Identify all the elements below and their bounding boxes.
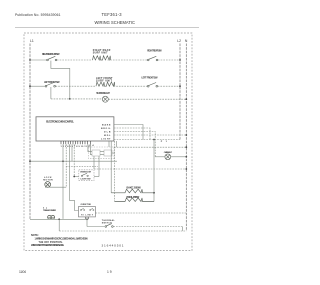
wire door circuit to N: [94, 168, 186, 170]
svg-text:SURF IND LIGHT: SURF IND LIGHT: [96, 92, 110, 95]
connector block P2: [92, 150, 100, 156]
wire rung2 right mid: [114, 85, 148, 87]
wire comb pin to connector P2 upper: [88, 144, 92, 151]
wire rung2 to L2: [158, 85, 180, 87]
svg-text:TEF361-3: TEF361-3: [102, 12, 123, 17]
wire rung1 to L2: [158, 59, 180, 61]
svg-text:LIGHT: LIGHT: [101, 139, 111, 141]
wire motor to harness: [45, 186, 66, 188]
wire main horizontal L1 feed: [30, 160, 117, 162]
connector housing dashed box: [89, 147, 115, 159]
junction rung1 at L1: [29, 59, 31, 61]
connector block P3: [104, 150, 112, 156]
schematic border frame: [24, 33, 192, 251]
wire connector to N: [114, 146, 186, 148]
switch right rear surface switch L2 side: [147, 56, 158, 61]
wire rung1 left: [30, 59, 47, 61]
wire TOD output to N: [95, 212, 186, 214]
svg-text:BAKE: BAKE: [102, 124, 111, 127]
wire thermal rung right: [113, 226, 182, 228]
switch TOD contact 1: [80, 208, 84, 210]
junction L1 feed crossing: [62, 160, 64, 162]
wire harness vertical 2: [65, 144, 67, 187]
junction TOD stub at transformer wire: [86, 219, 88, 221]
wire rung2 left: [30, 85, 45, 87]
wire L2 bus: [179, 44, 181, 140]
heating element bake: [111, 189, 154, 193]
junction pilot node: [69, 98, 71, 100]
wire EOC pin stub b: [116, 141, 118, 147]
junction door switch feed: [73, 176, 75, 178]
junction lamp wire at N: [185, 98, 187, 100]
wire connector P2 to P3: [100, 152, 104, 155]
svg-text:2. DISCONNECT POWER BEFORE SE: 2. DISCONNECT POWER BEFORE SERVICING.: [31, 245, 64, 247]
electronic oven control box U1: [36, 117, 114, 141]
wire pilot drop from rung1 switch: [51, 61, 70, 99]
wire rung1 right mid: [108, 59, 148, 61]
svg-text:Publication No. 5995439061: Publication No. 5995439061: [15, 13, 61, 17]
wire harness vertical 1: [62, 144, 64, 219]
svg-text:19: 19: [107, 270, 112, 274]
lamp oven light: [165, 154, 171, 160]
switch left rear surface switch: [147, 83, 157, 88]
wire connector P3 stub: [112, 152, 115, 154]
wire indicator lamp to N: [108, 98, 186, 100]
switch left front surface switch L1 side: [47, 56, 57, 61]
wire oven light left: [155, 156, 165, 158]
svg-text:BROIL: BROIL: [101, 128, 111, 130]
heating element right rear surface unit: [93, 56, 111, 60]
junction oven light at N: [185, 156, 187, 158]
wire comb pin to connector P2 lower: [90, 144, 92, 154]
switch door light switch: [81, 173, 88, 176]
svg-text:SURF UNIT: SURF UNIT: [93, 51, 108, 54]
svg-text:WIRING SCHEMATIC: WIRING SCHEMATIC: [95, 20, 136, 25]
wire EOC pin stub a: [108, 141, 110, 147]
svg-text:TRANSFORMER: TRANSFORMER: [43, 209, 56, 212]
wire EOC bake output: [114, 125, 143, 140]
wire harness vertical 4: [71, 144, 73, 161]
wire EOC broil output: [114, 128, 150, 140]
wire bottom return to N: [59, 230, 186, 232]
wire rung2 mid: [56, 85, 97, 87]
junction door switch wire at N: [185, 168, 187, 170]
wire L1 to transformer: [30, 218, 87, 220]
wire pilot drop from rung2 switch: [50, 87, 52, 99]
heating element left front surface unit: [96, 82, 115, 86]
lamp surface indicator light: [102, 96, 108, 102]
wire loop left drop: [58, 219, 60, 231]
wire L2 rail to elements: [153, 140, 155, 202]
junction rung2 at L1: [29, 85, 31, 87]
svg-text:11/04: 11/04: [19, 270, 26, 274]
svg-text:L1: L1: [30, 39, 34, 43]
svg-text:BAKE 2585W: BAKE 2585W: [127, 187, 142, 190]
oven door light switch box: [79, 170, 94, 181]
switch TOD contact 2: [90, 208, 94, 210]
junction transformer tap: [58, 218, 60, 220]
header rule: [15, 27, 199, 29]
wire N bus: [185, 44, 187, 232]
svg-text:LEFT FRONT SW: LEFT FRONT SW: [142, 77, 159, 80]
svg-text:DLB: DLB: [104, 132, 111, 134]
svg-text:ELECTRONIC OVEN CONTROL: ELECTRONIC OVEN CONTROL: [46, 119, 74, 123]
wire oven light to N: [171, 156, 187, 158]
svg-text:SURF UNIT: SURF UNIT: [96, 80, 113, 83]
svg-text:RIGHT REAR SURF SW: RIGHT REAR SURF SW: [42, 53, 60, 56]
wire L1 bus: [29, 44, 31, 220]
wire door switch to N: [94, 176, 99, 178]
wire TOD bottom stub: [86, 217, 88, 227]
svg-text:1 2 3 4 5 6 7 8 9 10 11 12: 1 2 3 4 5 6 7 8 9 10 11 12: [61, 145, 92, 148]
wire EOC L2 input: [114, 139, 180, 141]
svg-text:L2: L2: [177, 39, 181, 43]
wire thermal rung end drop: [181, 227, 183, 232]
switch thermal switch: [105, 224, 113, 228]
switch left front surface switch: [45, 83, 55, 88]
wire broil rail: [114, 141, 116, 202]
svg-text:THE OFF POSITION.: THE OFF POSITION.: [39, 242, 63, 244]
junction rung2 at L2: [179, 85, 181, 87]
thermostat TOD box: [79, 207, 96, 217]
svg-text:316440501: 316440501: [102, 243, 124, 247]
svg-text:OVEN DOOR: OVEN DOOR: [80, 172, 91, 174]
wire thermal rung left: [87, 226, 105, 228]
wire auxiliary horizontal: [66, 166, 98, 168]
wire harness vertical 3: [70, 144, 79, 210]
transformer T1: [48, 215, 55, 219]
EOC terminal comb pins: [61, 141, 90, 144]
wire bake rail: [110, 141, 112, 193]
heating element broil: [115, 198, 155, 202]
junction EOC neutral at N: [185, 134, 187, 136]
wire harness vertical 5: [73, 144, 75, 176]
wire connector down leg a: [98, 156, 100, 177]
junction bake row at rail: [153, 192, 155, 194]
wire EOC neutral to N: [114, 134, 186, 136]
motor lock motor: [45, 182, 51, 188]
wire connector down leg b: [93, 156, 95, 169]
junction L1 feed at bus: [29, 160, 31, 162]
svg-text:LEFT FRONT SW: LEFT FRONT SW: [44, 81, 60, 84]
svg-text:HI LIMIT: HI LIMIT: [81, 215, 94, 217]
svg-text:1. WIRING SHOWN WITH DOOR CLO: 1. WIRING SHOWN WITH DOOR CLOSED AND ALL…: [35, 238, 88, 241]
wire into door switch box: [74, 176, 79, 178]
svg-text:RIGHT REAR SW: RIGHT REAR SW: [147, 50, 162, 53]
wire rung1 mid: [57, 59, 93, 61]
wire pilot to indicator lamp: [51, 98, 102, 100]
terminal TOD bottom ticks: [85, 217, 88, 219]
wire EOC light output: [114, 132, 155, 157]
junction DLB rail at L2 wire: [153, 139, 155, 141]
svg-text:MDL: MDL: [104, 135, 111, 137]
svg-text:LIGHT SW: LIGHT SW: [81, 179, 91, 181]
svg-text:OVEN TOD: OVEN TOD: [81, 204, 92, 206]
junction lower wire at N: [185, 146, 187, 148]
junction rung1 at L2: [179, 59, 181, 61]
svg-text:NOTE:: NOTE:: [31, 234, 39, 237]
